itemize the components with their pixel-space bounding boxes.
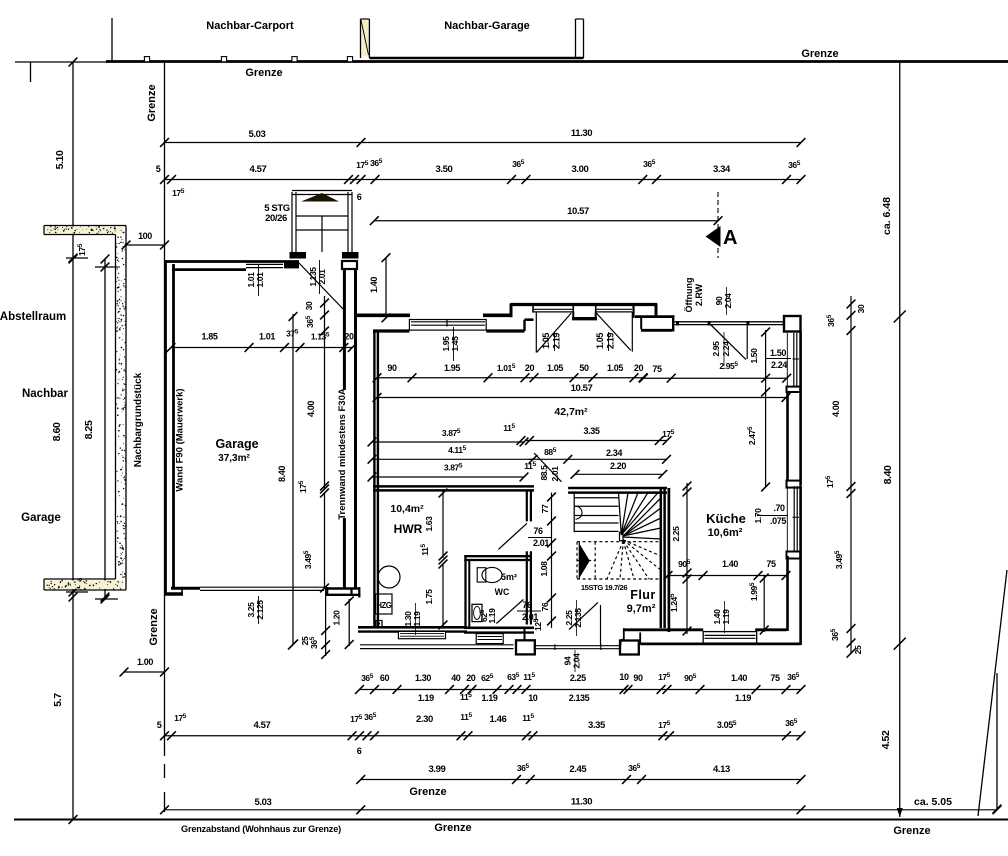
svg-text:1.19: 1.19 — [412, 611, 422, 627]
wall east band 2 — [786, 556, 789, 631]
svg-text:100: 100 — [138, 231, 152, 241]
wall north center pier — [572, 317, 597, 320]
svg-text:75: 75 — [652, 364, 662, 374]
svg-text:1.40: 1.40 — [369, 277, 379, 293]
wall north outer left segment 2 — [483, 313, 512, 317]
terrace edge lines — [360, 644, 514, 646]
svg-text:A: A — [723, 227, 737, 249]
svg-text:20: 20 — [525, 363, 535, 373]
svg-text:1.63: 1.63 — [424, 516, 434, 532]
svg-text:1.95: 1.95 — [444, 363, 460, 373]
svg-text:75: 75 — [766, 559, 776, 569]
opening Oeffnung double line — [675, 321, 787, 323]
svg-text:Grenze: Grenze — [245, 67, 282, 79]
wire left dim line 5.10/8.60/5.7 — [72, 62, 74, 819]
wall north inner face mid — [486, 329, 524, 332]
wall south entrance block left — [516, 640, 535, 654]
svg-text:2.20: 2.20 — [610, 461, 626, 471]
svg-text:77: 77 — [540, 504, 550, 513]
door corridor top swing — [498, 523, 527, 549]
svg-text:Nachbar-Garage: Nachbar-Garage — [444, 20, 530, 32]
svg-text:90: 90 — [633, 673, 643, 683]
svg-text:Grenze: Grenze — [409, 786, 446, 798]
svg-text:Wand F90 (Mauerwerk): Wand F90 (Mauerwerk) — [175, 388, 186, 491]
svg-text:Nachbar: Nachbar — [22, 388, 69, 400]
svg-text:1.19: 1.19 — [735, 693, 751, 703]
dimension 3.87|5 lower — [372, 476, 524, 478]
wall neighbour garage right — [575, 19, 577, 58]
svg-text:2.45: 2.45 — [569, 764, 587, 775]
bottom chain C (3.99 2.45 4.13 / Grenze) — [361, 779, 801, 781]
wall Trennwand left leaf — [343, 269, 346, 588]
wall north inner face left — [373, 329, 409, 332]
wall east pier 1 — [787, 387, 801, 392]
svg-text:1.85: 1.85 — [202, 332, 218, 342]
dimension 25/36|5 bottom ticks — [325, 588, 327, 656]
right interior dim chain — [850, 296, 852, 654]
wall HWR top — [373, 485, 534, 488]
wire right small vertical — [996, 673, 998, 810]
svg-text:2.95: 2.95 — [711, 341, 721, 357]
svg-text:3.34: 3.34 — [713, 164, 731, 175]
svg-text:1.46: 1.46 — [490, 714, 507, 725]
dimension vertical 2.47|5 — [765, 330, 767, 487]
svg-text:ca. 6.48: ca. 6.48 — [881, 197, 893, 235]
wall HWR left — [373, 331, 375, 627]
svg-text:6: 6 — [357, 746, 362, 756]
svg-text:11.30: 11.30 — [571, 797, 592, 808]
wall Trennwand right leaf — [354, 269, 357, 588]
entrance door sill — [535, 645, 620, 647]
svg-text:1.75: 1.75 — [424, 589, 434, 605]
washing machine circle — [378, 566, 400, 588]
wall stair top — [568, 487, 667, 490]
svg-text:2.04: 2.04 — [572, 653, 582, 669]
svg-text:3.00: 3.00 — [572, 164, 589, 175]
wall north step right — [655, 304, 658, 317]
wire slanted boundary right — [978, 570, 1007, 816]
window W1 north (1.95/1.45) — [409, 320, 486, 331]
wall south entrance block right — [620, 641, 639, 655]
dimension 1.75 vertical HWR — [442, 564, 444, 627]
dimension 2.20 — [575, 473, 663, 475]
dimension 3.87|5 upper — [372, 441, 524, 443]
wall south Flur/Kueche inner face — [624, 628, 703, 631]
svg-text:76: 76 — [540, 602, 550, 611]
wall garage bottom right block — [326, 587, 360, 590]
bottom chain D (5.03 11.30 ca 5.05) — [165, 809, 998, 811]
svg-text:10,4m²: 10,4m² — [390, 503, 424, 515]
garage side door leaf filled — [284, 262, 299, 269]
dimension chain under north wall — [377, 377, 643, 379]
dimension 8.40 vertical garage — [292, 314, 294, 645]
label 88.5/2.01 rotated diag — [534, 453, 562, 482]
svg-text:2.24: 2.24 — [721, 341, 731, 357]
wall north right step bars — [635, 315, 674, 318]
svg-text:20: 20 — [634, 363, 644, 373]
wall neighbour garage bottom — [369, 57, 583, 60]
svg-text:Grenze: Grenze — [146, 84, 158, 121]
wall garage bottom outer-left — [164, 592, 183, 596]
door Flur swing — [569, 602, 598, 629]
svg-text:5m²: 5m² — [501, 572, 517, 582]
svg-text:10,6m²: 10,6m² — [708, 527, 743, 539]
door swing window W2 — [535, 312, 537, 352]
dimension 100 (hatch to Grenze) — [126, 244, 165, 246]
wall garage bottom inner — [171, 587, 200, 590]
svg-text:Grenze: Grenze — [148, 608, 160, 645]
svg-text:40: 40 — [451, 673, 461, 683]
outdoor stair wall pads — [290, 252, 307, 259]
wall north step left — [510, 304, 513, 318]
bottom chain A (36|5 60 1.30 ...) — [360, 689, 802, 691]
svg-text:10: 10 — [528, 693, 538, 703]
dimension 4.11|5 — [372, 458, 533, 460]
svg-text:Grenze: Grenze — [434, 822, 471, 834]
wall east band 1 — [786, 392, 789, 485]
svg-text:4.13: 4.13 — [713, 764, 730, 775]
wall Trennwand cap — [342, 261, 357, 269]
wall stair right — [660, 488, 663, 628]
dimension 90|5/1.40/75 kitchen — [667, 575, 788, 577]
svg-text:4.52: 4.52 — [880, 730, 892, 749]
svg-text:1.50: 1.50 — [770, 348, 786, 358]
svg-text:Nachbargrundstück: Nachbargrundstück — [133, 372, 144, 467]
node left site corner stub — [30, 62, 32, 82]
svg-text:1.70: 1.70 — [753, 508, 763, 524]
wire Grenze vertical line left — [164, 62, 166, 756]
window HWR south — [398, 631, 445, 638]
svg-text:2.135: 2.135 — [573, 608, 583, 628]
bottom chain B (4.57 2.30 1.46 3.35 3.05|5) — [165, 735, 802, 737]
dimension 1.00 bottom-left — [124, 671, 165, 673]
svg-text:Küche: Küche — [706, 511, 746, 526]
section marker A — [717, 192, 719, 258]
svg-text:5.10: 5.10 — [54, 150, 66, 169]
wall garage left outer — [164, 260, 167, 596]
svg-text:1.30: 1.30 — [415, 673, 431, 683]
dimension 1.63 vertical HWR — [442, 490, 444, 558]
svg-text:2.135: 2.135 — [569, 693, 590, 703]
wall hatched neighbour garage (Abstellraum) — [45, 227, 123, 234]
svg-text:3.35: 3.35 — [588, 720, 606, 731]
svg-text:50: 50 — [579, 363, 589, 373]
svg-text:2.01: 2.01 — [317, 269, 327, 285]
dimension 10.57 top — [374, 220, 718, 222]
svg-text:5.03: 5.03 — [249, 129, 266, 140]
svg-text:Trennwand mindestens F30A: Trennwand mindestens F30A — [337, 388, 348, 520]
garage gate opening — [200, 586, 324, 588]
svg-text:5.7: 5.7 — [52, 693, 64, 707]
wall east pier 3 — [787, 552, 801, 559]
svg-text:10: 10 — [619, 672, 629, 682]
wire bottom boundary line — [14, 819, 1008, 821]
dimension 1.40 vertical (stair recess) — [385, 258, 387, 318]
svg-text:3.50: 3.50 — [436, 164, 453, 175]
dimension chain 4.57/3.50/3.00/3.34 top — [165, 179, 802, 181]
wall WC right / corridor — [526, 551, 528, 624]
svg-text:37,3m²: 37,3m² — [218, 453, 250, 464]
svg-text:5: 5 — [157, 720, 162, 730]
opening diagonal brace — [711, 325, 746, 360]
HZG box — [376, 594, 393, 614]
svg-text:4.00: 4.00 — [831, 401, 841, 417]
dimension garage top chain 1.85/1.01/37|5/1.13|5/20 — [171, 347, 352, 349]
wire carport left post line — [111, 18, 113, 61]
svg-text:2.30: 2.30 — [416, 714, 433, 725]
wall corridor right upper — [526, 490, 528, 521]
svg-text:42,7m²: 42,7m² — [554, 406, 588, 418]
stair direction wedge — [579, 544, 590, 579]
wire dim line 8.25 — [104, 259, 106, 597]
stair lower flight dashed — [576, 542, 578, 579]
outdoor stair 5 STG box — [291, 192, 293, 252]
svg-text:2.01: 2.01 — [533, 538, 549, 548]
fence posts on boundary — [144, 57, 149, 62]
svg-text:Nachbar-Carport: Nachbar-Carport — [206, 20, 294, 32]
door swing window W3 — [631, 312, 633, 352]
wall WC left — [464, 556, 466, 628]
wall garage top outer — [164, 260, 299, 263]
dimension 88|5 / 2.34 — [529, 458, 667, 460]
wall WC top — [464, 555, 531, 557]
garage side door opening — [246, 263, 283, 265]
window WC south — [476, 634, 503, 644]
svg-text:1.05: 1.05 — [541, 333, 551, 349]
wall east pier 2 — [787, 481, 801, 488]
svg-text:2.19: 2.19 — [552, 333, 562, 349]
svg-text:HWR: HWR — [394, 522, 423, 536]
wall north high section top — [510, 303, 657, 306]
svg-text:1.05: 1.05 — [595, 333, 605, 349]
svg-text:11.30: 11.30 — [571, 128, 592, 139]
dimension 36|5 30 vertical at wall — [324, 296, 326, 338]
dimension line under opening — [643, 377, 787, 379]
window E2 glazing (1.70) — [793, 486, 795, 551]
toilet WC — [477, 568, 486, 582]
svg-text:2.19: 2.19 — [606, 333, 616, 349]
svg-text:25: 25 — [853, 645, 863, 654]
svg-text:8.25: 8.25 — [83, 420, 95, 439]
svg-text:2.24: 2.24 — [771, 360, 787, 370]
window Kueche south — [703, 632, 757, 644]
svg-text:10.57: 10.57 — [567, 206, 589, 217]
svg-text:1.00: 1.00 — [137, 657, 153, 667]
svg-text:1.40: 1.40 — [722, 559, 738, 569]
svg-text:2.04: 2.04 — [723, 293, 733, 309]
wall south WC bottom — [464, 626, 534, 629]
wall east corner block top — [784, 316, 801, 332]
wall garage top inner — [172, 268, 246, 271]
svg-text:20: 20 — [466, 673, 476, 683]
svg-text:1.08: 1.08 — [539, 561, 549, 577]
svg-text:1.19: 1.19 — [418, 693, 434, 703]
svg-text:Grenze: Grenze — [893, 825, 930, 837]
svg-text:88.5: 88.5 — [539, 465, 549, 481]
window E1 glazing (1.50/2.24) — [793, 333, 795, 386]
dimension 3.49|5 vertical garage — [324, 493, 326, 588]
svg-text:8.40: 8.40 — [882, 465, 894, 484]
svg-text:.075: .075 — [770, 516, 786, 526]
wire boundary top Grenze thick line — [106, 60, 1008, 63]
svg-text:60: 60 — [380, 673, 390, 683]
svg-text:2.125: 2.125 — [255, 600, 265, 620]
svg-text:30: 30 — [856, 304, 866, 313]
stair upper flight — [573, 493, 575, 533]
svg-text:Grenze: Grenze — [801, 48, 838, 60]
window W3 north — [596, 308, 632, 310]
svg-text:76: 76 — [533, 526, 543, 536]
svg-text:1.19: 1.19 — [487, 608, 497, 624]
svg-text:1.50: 1.50 — [749, 348, 759, 364]
svg-text:1.05: 1.05 — [547, 363, 563, 373]
sink WC — [472, 604, 482, 621]
svg-text:6: 6 — [357, 192, 362, 202]
svg-text:30: 30 — [304, 301, 314, 310]
dimension chain 5.03 / 11.30 top — [165, 142, 802, 144]
wall garage left inner — [172, 264, 175, 589]
dimension 10.57 interior — [377, 397, 786, 399]
svg-text:5.03: 5.03 — [255, 797, 272, 808]
svg-text:4.57: 4.57 — [250, 164, 267, 175]
svg-text:1.40: 1.40 — [731, 673, 747, 683]
svg-text:8.60: 8.60 — [51, 422, 63, 441]
wire right dim line ca 6.48 / 8.40 / 4.52 — [899, 62, 901, 818]
svg-text:1.01: 1.01 — [255, 272, 265, 288]
garage side door swing — [299, 263, 344, 310]
svg-text:2.25: 2.25 — [671, 526, 681, 542]
svg-text:Flur: Flur — [630, 588, 656, 602]
svg-text:10.57: 10.57 — [571, 383, 593, 394]
svg-text:2.RW: 2.RW — [694, 283, 704, 306]
svg-text:Grenzabstand (Wohnhaus zur Gre: Grenzabstand (Wohnhaus zur Grenze) — [181, 824, 341, 834]
svg-text:2.01: 2.01 — [550, 466, 560, 482]
svg-text:90: 90 — [387, 363, 397, 373]
svg-text:1.45: 1.45 — [450, 336, 460, 352]
svg-text:9,7m²: 9,7m² — [627, 603, 656, 615]
svg-text:1.19: 1.19 — [721, 609, 731, 625]
svg-text:Garage: Garage — [21, 512, 61, 524]
svg-text:15STG 19.7/26: 15STG 19.7/26 — [581, 583, 627, 592]
svg-text:3.99: 3.99 — [429, 764, 446, 775]
svg-text:20/26: 20/26 — [265, 213, 287, 224]
svg-text:ca. 5.05: ca. 5.05 — [914, 796, 952, 808]
svg-text:2.34: 2.34 — [606, 448, 622, 458]
wall neighbour garage left cut — [360, 19, 362, 58]
svg-text:Garage: Garage — [215, 437, 258, 451]
svg-text:1.20: 1.20 — [332, 610, 342, 626]
svg-text:3.35: 3.35 — [584, 426, 600, 436]
svg-text:2.25: 2.25 — [570, 673, 586, 683]
corridor vertical dim chain — [551, 493, 553, 628]
wall south Kueche outer face — [640, 643, 800, 646]
dimension 2.25 vertical — [686, 483, 688, 576]
dimension 3.35 / 17|5 middle — [525, 440, 667, 442]
svg-text:1.01: 1.01 — [259, 332, 275, 342]
svg-text:76: 76 — [522, 600, 532, 610]
door WC swing — [496, 600, 523, 624]
svg-text:20: 20 — [344, 332, 354, 342]
svg-text:Abstellraum: Abstellraum — [0, 311, 66, 323]
svg-text:1.05: 1.05 — [607, 363, 623, 373]
svg-text:Öffnung: Öffnung — [684, 278, 694, 313]
window W2 north — [533, 308, 573, 310]
svg-text:75: 75 — [770, 673, 780, 683]
svg-text:1.19: 1.19 — [482, 693, 498, 703]
svg-text:HZG: HZG — [376, 601, 391, 610]
svg-text:.70: .70 — [773, 503, 785, 513]
dimension 4.00 vertical garage — [324, 331, 326, 489]
wall south HWR bottom — [358, 626, 467, 629]
label Trennwand mindestens F30A — [339, 390, 352, 518]
dimension 1.24|5 vertical — [686, 576, 688, 635]
svg-text:8.40: 8.40 — [277, 466, 287, 482]
wall north outer left segment — [354, 313, 410, 317]
small meter box — [376, 621, 382, 627]
svg-text:5: 5 — [156, 164, 161, 174]
svg-text:4.57: 4.57 — [254, 720, 271, 731]
svg-text:4.00: 4.00 — [306, 401, 316, 417]
wall Kueche divider — [668, 488, 671, 632]
svg-text:WC: WC — [495, 587, 510, 597]
